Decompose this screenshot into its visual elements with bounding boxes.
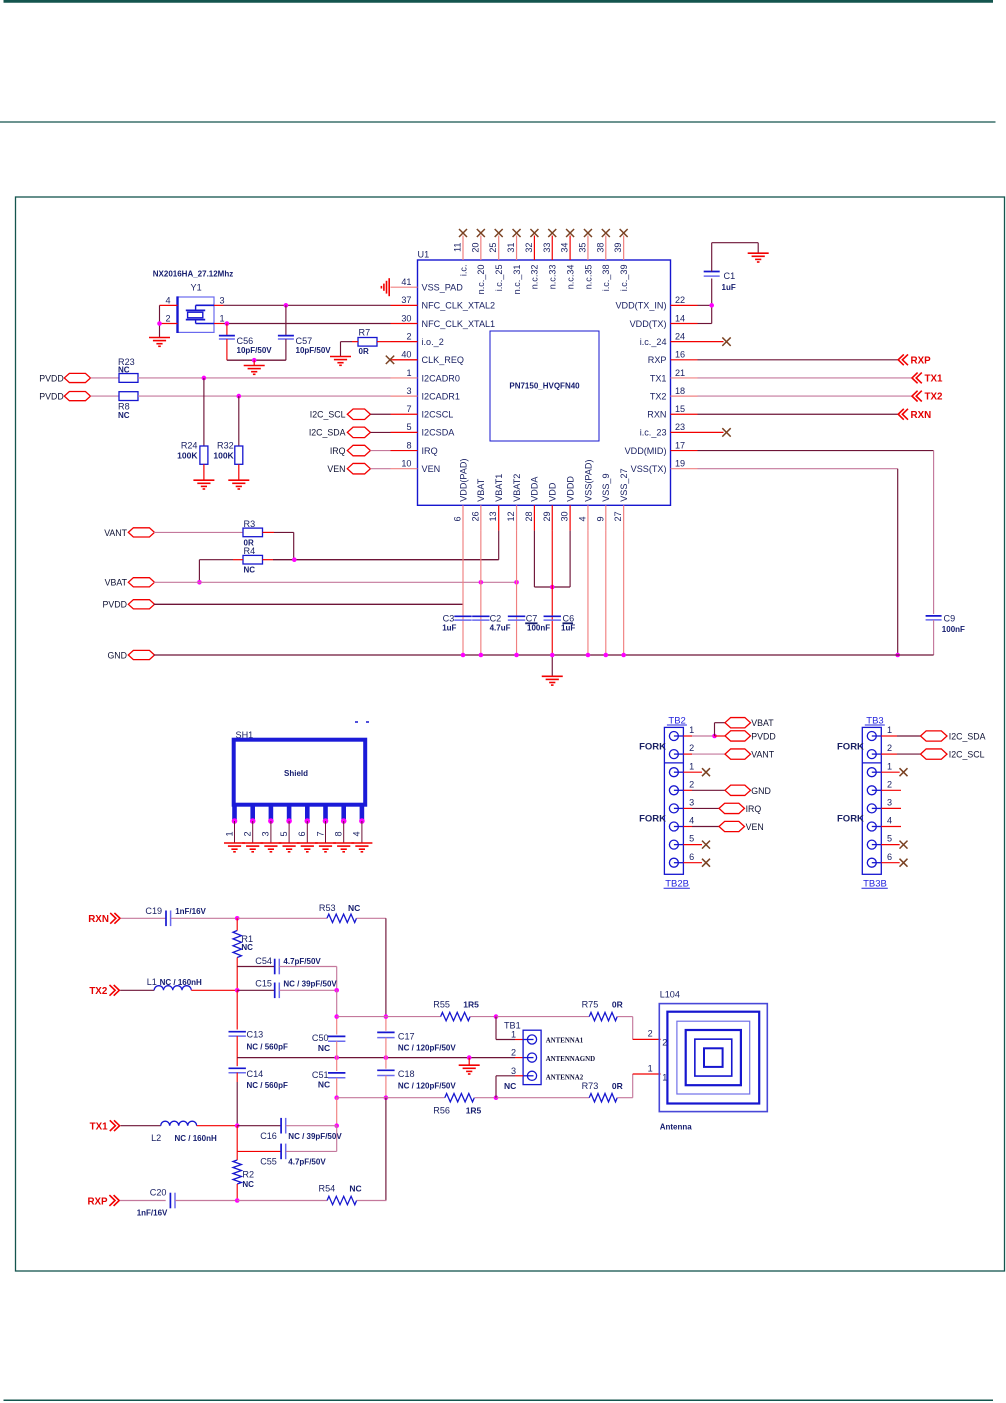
svg-text:R73: R73 (582, 1081, 599, 1091)
svg-text:VANT: VANT (751, 750, 774, 760)
svg-text:2: 2 (887, 743, 892, 753)
svg-text:VDD(MID): VDD(MID) (625, 446, 667, 456)
svg-text:3: 3 (220, 296, 225, 306)
svg-text:30: 30 (560, 511, 570, 521)
svg-text:NFC_CLK_XTAL2: NFC_CLK_XTAL2 (422, 301, 496, 311)
svg-text:n.c.32: n.c.32 (530, 265, 540, 290)
svg-text:4: 4 (165, 296, 170, 306)
svg-text:100K: 100K (177, 451, 198, 461)
svg-text:100K: 100K (213, 451, 234, 461)
svg-text:R54: R54 (319, 1183, 336, 1193)
svg-text:U1: U1 (418, 250, 430, 260)
svg-text:6: 6 (689, 852, 694, 862)
svg-text:2: 2 (662, 1037, 667, 1047)
svg-text:5: 5 (406, 422, 411, 432)
svg-text:NC: NC (318, 1080, 330, 1090)
svg-text:i.c._38: i.c._38 (601, 265, 611, 292)
svg-text:NC / 560pF: NC / 560pF (247, 1081, 288, 1090)
svg-text:RXP: RXP (648, 355, 667, 365)
svg-text:NC: NC (118, 366, 130, 375)
svg-text:2: 2 (689, 743, 694, 753)
svg-text:R32: R32 (217, 441, 234, 451)
svg-text:R2: R2 (242, 1170, 254, 1180)
svg-text:1nF/16V: 1nF/16V (175, 907, 206, 916)
svg-text:RXN: RXN (647, 410, 666, 420)
svg-text:I2CADR1: I2CADR1 (422, 391, 460, 401)
svg-text:PVDD: PVDD (751, 731, 775, 741)
svg-text:29: 29 (542, 511, 552, 521)
svg-text:i.c._25: i.c._25 (494, 265, 504, 292)
svg-text:I2CADR0: I2CADR0 (422, 373, 460, 383)
svg-text:VSS_9: VSS_9 (601, 473, 611, 501)
svg-text:4.7uF: 4.7uF (490, 624, 511, 633)
svg-text:30: 30 (401, 313, 411, 323)
svg-text:2: 2 (689, 779, 694, 789)
svg-text:19: 19 (675, 459, 685, 469)
svg-text:NC / 120pF/50V: NC / 120pF/50V (398, 1081, 456, 1090)
svg-text:11: 11 (453, 243, 463, 252)
svg-text:3: 3 (689, 798, 694, 808)
svg-text:16: 16 (675, 350, 685, 360)
svg-text:100nF: 100nF (942, 625, 965, 634)
svg-text:VBAT: VBAT (105, 578, 128, 588)
svg-text:12: 12 (506, 511, 516, 521)
svg-text:i.c._24: i.c._24 (640, 337, 667, 347)
svg-text:n.c.35: n.c.35 (583, 265, 593, 290)
svg-text:27: 27 (613, 511, 623, 521)
svg-text:TX1: TX1 (925, 374, 944, 385)
svg-text:NC: NC (118, 411, 130, 420)
svg-text:21: 21 (675, 368, 685, 378)
svg-text:2: 2 (406, 331, 411, 341)
svg-text:2: 2 (165, 313, 170, 323)
svg-text:34: 34 (560, 243, 570, 253)
svg-text:1: 1 (406, 368, 411, 378)
svg-text:0R: 0R (359, 347, 369, 356)
svg-text:10: 10 (401, 459, 411, 469)
svg-text:PVDD: PVDD (39, 391, 63, 401)
svg-text:2: 2 (243, 831, 253, 836)
svg-text:L1: L1 (147, 977, 157, 987)
svg-text:NC / 160nH: NC / 160nH (175, 1134, 217, 1143)
svg-text:1: 1 (511, 1030, 516, 1040)
svg-text:3: 3 (406, 386, 411, 396)
svg-text:3: 3 (511, 1066, 516, 1076)
svg-text:FORK: FORK (639, 814, 666, 825)
svg-text:8: 8 (334, 831, 344, 836)
svg-text:I2C_SDA: I2C_SDA (309, 428, 346, 438)
svg-text:8: 8 (406, 440, 411, 450)
svg-text:NC / 560pF: NC / 560pF (247, 1042, 288, 1051)
svg-text:2: 2 (511, 1048, 516, 1058)
svg-text:26: 26 (470, 511, 480, 521)
svg-text:I2C_SCL: I2C_SCL (949, 750, 985, 760)
svg-text:PVDD: PVDD (103, 600, 127, 610)
svg-text:NC: NC (504, 1081, 516, 1091)
svg-text:NC: NC (242, 1180, 254, 1189)
svg-text:R53: R53 (319, 903, 336, 913)
svg-text:VEN: VEN (746, 822, 764, 832)
svg-text:RXP: RXP (911, 355, 932, 366)
svg-text:3: 3 (261, 831, 271, 836)
svg-text:C14: C14 (247, 1069, 264, 1079)
svg-text:15: 15 (675, 404, 685, 414)
svg-text:IRQ: IRQ (330, 446, 346, 456)
svg-text:4.7pF/50V: 4.7pF/50V (283, 957, 321, 966)
svg-text:5: 5 (887, 834, 892, 844)
svg-text:n.c._20: n.c._20 (476, 265, 486, 295)
svg-text:C7: C7 (526, 613, 538, 623)
svg-text:17: 17 (675, 440, 685, 450)
svg-text:VEN: VEN (422, 464, 441, 474)
svg-text:1R5: 1R5 (463, 999, 479, 1009)
svg-text:VDD(TX_IN): VDD(TX_IN) (615, 301, 666, 311)
svg-text:IRQ: IRQ (746, 804, 762, 814)
svg-text:14: 14 (675, 313, 685, 323)
svg-text:NX2016HA_27.12Mhz: NX2016HA_27.12Mhz (153, 270, 233, 279)
svg-text:C19: C19 (145, 906, 162, 916)
svg-text:VSS(TX): VSS(TX) (631, 464, 667, 474)
svg-text:VEN: VEN (327, 464, 345, 474)
svg-text:0R: 0R (612, 999, 623, 1009)
svg-text:FORK: FORK (837, 741, 864, 752)
svg-text:C3: C3 (443, 613, 455, 623)
svg-text:C13: C13 (247, 1030, 264, 1040)
svg-text:C20: C20 (150, 1188, 167, 1198)
svg-text:GND: GND (107, 650, 127, 660)
svg-text:31: 31 (506, 243, 516, 253)
svg-text:ANTENNAGND: ANTENNAGND (546, 1056, 595, 1063)
svg-text:VBAT2: VBAT2 (512, 474, 522, 502)
svg-text:20: 20 (470, 243, 480, 253)
svg-text:NC / 39pF/50V: NC / 39pF/50V (283, 979, 337, 988)
svg-text:Shield: Shield (284, 769, 308, 778)
svg-text:NC / 160nH: NC / 160nH (160, 978, 202, 987)
svg-text:ANTENNA2: ANTENNA2 (546, 1074, 584, 1081)
svg-text:4: 4 (887, 816, 892, 826)
svg-text:C54: C54 (255, 956, 272, 966)
svg-text:Y1: Y1 (191, 283, 202, 293)
svg-text:I2CSDA: I2CSDA (422, 428, 456, 438)
svg-text:37: 37 (401, 295, 411, 305)
svg-text:7: 7 (406, 404, 411, 414)
svg-text:i.c._23: i.c._23 (640, 428, 667, 438)
svg-text:C51: C51 (312, 1070, 329, 1080)
svg-text:R3: R3 (244, 519, 256, 529)
svg-text:6: 6 (453, 516, 463, 521)
svg-text:3: 3 (887, 798, 892, 808)
svg-text:24: 24 (675, 331, 685, 341)
svg-text:2: 2 (648, 1028, 653, 1038)
svg-text:VBAT1: VBAT1 (494, 474, 504, 502)
svg-text:6: 6 (297, 831, 307, 836)
svg-text:NC: NC (241, 943, 253, 952)
svg-text:10pF/50V: 10pF/50V (296, 346, 332, 355)
svg-text:4: 4 (352, 831, 362, 836)
svg-text:VDD(PAD): VDD(PAD) (458, 459, 468, 502)
svg-text:CLK_REQ: CLK_REQ (422, 355, 464, 365)
svg-text:1nF/16V: 1nF/16V (137, 1209, 168, 1218)
svg-text:C17: C17 (398, 1031, 415, 1041)
svg-text:1: 1 (662, 1072, 667, 1082)
svg-text:VANT: VANT (104, 528, 127, 538)
svg-text:4: 4 (577, 516, 587, 521)
svg-text:VSS(PAD): VSS(PAD) (583, 460, 593, 502)
svg-text:1: 1 (648, 1063, 653, 1073)
svg-text:1uF: 1uF (722, 283, 736, 292)
svg-text:0R: 0R (612, 1081, 623, 1091)
svg-text:n.c.34: n.c.34 (565, 265, 575, 290)
svg-text:TX2: TX2 (925, 392, 944, 403)
svg-text:1: 1 (689, 725, 694, 735)
svg-text:FORK: FORK (837, 814, 864, 825)
svg-text:25: 25 (488, 243, 498, 253)
svg-text:NFC_CLK_XTAL1: NFC_CLK_XTAL1 (422, 319, 496, 329)
svg-text:NC: NC (349, 1183, 361, 1193)
svg-text:4: 4 (689, 816, 694, 826)
svg-text:18: 18 (675, 386, 685, 396)
svg-text:ANTENNA1: ANTENNA1 (546, 1038, 584, 1045)
svg-text:13: 13 (488, 511, 498, 521)
svg-text:C57: C57 (296, 336, 313, 346)
svg-text:VSS_PAD: VSS_PAD (422, 283, 464, 293)
svg-text:RXN: RXN (911, 410, 932, 421)
svg-text:NC: NC (244, 565, 256, 574)
svg-text:VSS_27: VSS_27 (619, 468, 629, 501)
svg-text:VBAT: VBAT (476, 478, 486, 502)
svg-text:R7: R7 (359, 328, 371, 338)
svg-text:22: 22 (675, 295, 685, 305)
svg-text:IRQ: IRQ (422, 446, 438, 456)
svg-text:NC: NC (348, 903, 360, 913)
svg-text:1: 1 (220, 313, 225, 323)
svg-text:RXP: RXP (87, 1197, 108, 1208)
svg-text:L104: L104 (660, 989, 680, 999)
svg-text:C55: C55 (260, 1157, 277, 1167)
svg-text:R4: R4 (244, 546, 256, 556)
svg-text:I2C_SDA: I2C_SDA (949, 732, 986, 742)
svg-text:33: 33 (542, 243, 552, 253)
svg-text:C15: C15 (255, 978, 272, 988)
svg-text:n.c._31: n.c._31 (512, 265, 522, 295)
svg-text:1: 1 (689, 761, 694, 771)
svg-text:I2C_SCL: I2C_SCL (310, 410, 346, 420)
svg-text:PVDD: PVDD (39, 373, 63, 383)
svg-text:C6: C6 (563, 613, 575, 623)
svg-text:PN7150_HVQFN40: PN7150_HVQFN40 (509, 382, 580, 391)
svg-text:NC: NC (318, 1043, 330, 1053)
svg-text:R24: R24 (181, 441, 198, 451)
svg-text:1R5: 1R5 (466, 1106, 482, 1116)
svg-text:VDD(TX): VDD(TX) (630, 319, 667, 329)
svg-text:35: 35 (577, 243, 587, 253)
svg-text:R55: R55 (433, 999, 450, 1009)
svg-text:TX2: TX2 (89, 986, 108, 997)
svg-text:C1: C1 (724, 271, 736, 281)
svg-text:VDDD: VDDD (565, 476, 575, 502)
svg-text:i.c.: i.c. (458, 265, 468, 277)
svg-text:1: 1 (887, 725, 892, 735)
svg-text:1uF: 1uF (442, 624, 456, 633)
svg-text:L2: L2 (151, 1133, 161, 1143)
svg-text:FORK: FORK (639, 741, 666, 752)
svg-text:7: 7 (315, 831, 325, 836)
svg-text:TX2: TX2 (650, 391, 667, 401)
svg-text:Antenna: Antenna (660, 1122, 693, 1131)
svg-text:41: 41 (401, 277, 411, 287)
svg-text:TX1: TX1 (90, 1122, 109, 1133)
svg-text:GND: GND (751, 786, 771, 796)
svg-text:R75: R75 (582, 999, 599, 1009)
svg-text:5: 5 (279, 831, 289, 836)
svg-text:NC / 39pF/50V: NC / 39pF/50V (288, 1132, 342, 1141)
svg-text:4.7pF/50V: 4.7pF/50V (288, 1158, 326, 1167)
svg-text:5: 5 (689, 834, 694, 844)
svg-text:VDD: VDD (548, 482, 558, 502)
svg-text:C18: C18 (398, 1069, 415, 1079)
svg-text:100nF: 100nF (527, 624, 550, 633)
svg-text:C9: C9 (944, 613, 956, 623)
svg-text:VBAT: VBAT (751, 718, 774, 728)
svg-text:39: 39 (613, 243, 623, 253)
svg-text:C50: C50 (312, 1033, 329, 1043)
svg-text:10pF/50V: 10pF/50V (237, 346, 273, 355)
svg-text:VDDA: VDDA (530, 476, 540, 502)
svg-text:28: 28 (524, 511, 534, 521)
svg-text:NC / 120pF/50V: NC / 120pF/50V (398, 1044, 456, 1053)
svg-text:C56: C56 (237, 336, 254, 346)
svg-text:R56: R56 (433, 1106, 450, 1116)
svg-text:C2: C2 (490, 613, 502, 623)
svg-text:32: 32 (524, 243, 534, 253)
svg-text:I2CSCL: I2CSCL (422, 410, 454, 420)
svg-text:RXN: RXN (88, 914, 109, 925)
svg-text:40: 40 (401, 350, 411, 360)
svg-text:1: 1 (224, 831, 234, 836)
svg-text:1: 1 (887, 761, 892, 771)
svg-text:i.o._2: i.o._2 (422, 337, 444, 347)
svg-text:6: 6 (887, 852, 892, 862)
svg-text:23: 23 (675, 422, 685, 432)
svg-text:9: 9 (595, 516, 605, 521)
svg-text:C16: C16 (260, 1131, 277, 1141)
svg-text:1uF: 1uF (561, 624, 575, 633)
svg-text:i.c._39: i.c._39 (619, 265, 629, 292)
svg-text:n.c.33: n.c.33 (548, 265, 558, 290)
svg-text:38: 38 (595, 243, 605, 253)
svg-text:TX1: TX1 (650, 373, 667, 383)
svg-text:2: 2 (887, 779, 892, 789)
